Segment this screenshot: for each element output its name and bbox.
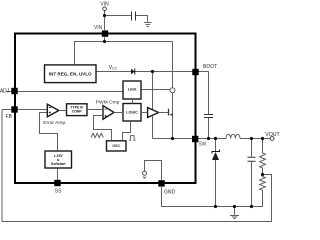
svg-text:VIN: VIN	[100, 1, 109, 7]
svg-text:Limit: Limit	[128, 88, 137, 92]
svg-text:VCC: VCC	[109, 65, 118, 71]
svg-text:VIN: VIN	[94, 25, 103, 31]
svg-text:FB: FB	[6, 114, 13, 120]
svg-text:SW: SW	[198, 141, 206, 147]
svg-text:LOGIC: LOGIC	[126, 111, 138, 115]
svg-text:VOUT: VOUT	[265, 132, 280, 138]
svg-text:GND: GND	[164, 190, 176, 196]
svg-text:Softstart: Softstart	[51, 162, 67, 166]
svg-text:BOOT: BOOT	[203, 64, 217, 70]
svg-text:ADJ: ADJ	[0, 88, 10, 94]
svg-text:INT REG, EN, UVLO: INT REG, EN, UVLO	[49, 72, 92, 77]
svg-text:SS: SS	[55, 189, 62, 195]
svg-text:PWM Cmp: PWM Cmp	[96, 100, 120, 106]
svg-text:OSC: OSC	[112, 144, 120, 148]
svg-text:COMP: COMP	[72, 110, 83, 114]
svg-text:Error Amp.: Error Amp.	[43, 120, 66, 126]
